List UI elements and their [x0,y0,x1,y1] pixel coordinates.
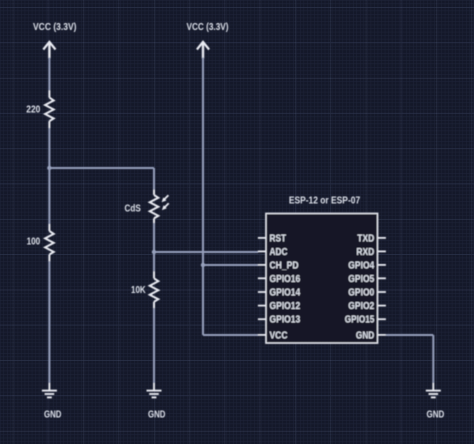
svg-text:TXD: TXD [357,233,374,244]
wire junction to ADC pin [154,251,258,253]
pin GPIO13 stub [258,318,266,320]
pin GPIO16 stub [258,277,266,279]
wire GND pin to right column [386,334,433,336]
svg-text:GPIO5: GPIO5 [348,274,374,285]
power symbol VCC arrow middle [197,42,209,59]
svg-text:GND: GND [356,330,374,341]
svg-text:10K: 10K [131,285,146,296]
svg-text:VCC (3.3V): VCC (3.3V) [187,21,229,33]
svg-text:220: 220 [26,104,40,115]
svg-text:GPIO14: GPIO14 [270,288,301,299]
wire to VCC pin [203,334,258,336]
resistor 220 [45,90,54,128]
photoresistor CdS [150,190,159,224]
svg-text:VCC: VCC [270,330,288,341]
pin RST stub [258,237,266,239]
wire junction down to VCC pin row [202,265,204,335]
junction at R220/R100/CdS branch [47,166,51,170]
wire down to GND right [432,335,434,383]
svg-text:CH_PD: CH_PD [270,260,299,271]
wire junction to CH_PD pin [203,264,258,266]
svg-text:GPIO4: GPIO4 [348,260,374,271]
pin TXD stub [378,237,386,239]
pin GPIO14 stub [258,291,266,293]
CdS light arrow 1 [162,195,169,202]
wire 10K to GND middle [153,308,155,383]
pin GND stub [378,334,386,336]
resistor 100 [45,224,54,261]
svg-text:GPIO12: GPIO12 [270,301,301,312]
svg-text:GPIO0: GPIO0 [348,288,374,299]
power symbol VCC arrow left [43,42,55,59]
junction at CH_PD branch [201,263,205,267]
svg-text:GND: GND [148,409,166,421]
svg-text:GND: GND [44,409,62,421]
pin GPIO0 stub [378,291,386,293]
svg-text:100: 100 [27,237,41,248]
pin RXD stub [378,250,386,252]
wire junction to CdS column [49,167,154,169]
svg-text:CdS: CdS [125,203,142,214]
junction at CdS/10K/ADC [152,250,156,254]
wire R220 to junction row [48,128,50,168]
svg-text:GPIO2: GPIO2 [348,301,374,312]
wire VCC-middle down to CH_PD junction [202,58,204,266]
pin GPIO4 stub [378,264,386,266]
CdS light arrow 2 [162,203,169,210]
svg-text:GND: GND [427,409,445,421]
wire VCC-left to R220 [48,58,50,91]
wire junction down to 10K [153,252,155,271]
svg-text:GPIO15: GPIO15 [345,315,375,326]
svg-text:RST: RST [270,233,287,244]
wire CdS to ADC junction [153,223,155,252]
pin CH_PD stub [258,264,266,266]
pin GPIO15 stub [378,318,386,320]
wire junction down to R100 [48,168,50,224]
svg-text:ESP-12 or ESP-07: ESP-12 or ESP-07 [289,194,360,206]
pin VCC stub [258,334,266,336]
svg-text:RXD: RXD [356,247,374,258]
ground symbol left [42,383,57,397]
svg-text:VCC (3.3V): VCC (3.3V) [33,21,77,33]
ground symbol right [426,383,441,397]
ground symbol middle [147,383,162,397]
svg-text:ADC: ADC [270,247,288,258]
wire down to CdS [153,168,155,190]
pin ADC stub [258,250,266,252]
pin GPIO2 stub [378,305,386,307]
pin GPIO12 stub [258,305,266,307]
svg-text:GPIO13: GPIO13 [270,315,301,326]
svg-text:GPIO16: GPIO16 [270,274,301,285]
resistor 10K [150,271,159,308]
wire R100 to GND left [48,261,50,383]
IC U1 body [266,213,378,343]
pin GPIO5 stub [378,277,386,279]
